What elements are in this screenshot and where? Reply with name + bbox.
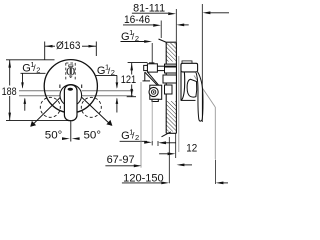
lever knuckle (187, 79, 197, 97)
12 dimension (157, 141, 159, 146)
top port centerline extension (151, 43, 153, 64)
bottom port centerline extension (151, 102, 153, 142)
rosette bottom line (181, 99, 196, 101)
indicator dot (68, 88, 73, 91)
left G1/2 leader arrows (22, 73, 24, 87)
wall face extension up (175, 9, 177, 42)
dashed swing circles (40, 97, 101, 117)
centerline below handle (70, 121, 72, 142)
svg-text:67-97: 67-97 (107, 154, 135, 166)
valve body (143, 63, 177, 102)
escutcheon rosette side profile (181, 65, 185, 101)
wall (166, 43, 176, 62)
svg-text:50°: 50° (84, 129, 102, 141)
svg-text:2: 2 (135, 133, 139, 142)
dashed hidden box (66, 63, 75, 81)
inward arrows at centerline (62, 137, 70, 140)
right swing-line arrowhead (106, 120, 112, 126)
svg-text:188: 188 (2, 86, 17, 98)
stem above boss (182, 61, 192, 63)
lever blade (196, 72, 203, 121)
svg-text:81-111: 81-111 (133, 2, 165, 14)
handle collar dome (60, 85, 82, 107)
dia163 dimension (45, 42, 97, 60)
svg-text:12: 12 (186, 143, 197, 155)
escutcheon circle (44, 60, 97, 113)
svg-text:Ø163: Ø163 (56, 40, 80, 52)
svg-text:50°: 50° (45, 129, 62, 141)
lever handle capsule (64, 85, 77, 121)
thin lever alt line (194, 76, 215, 108)
GROHE emblem (67, 65, 75, 78)
188 dimension (6, 60, 71, 121)
svg-text:121: 121 (121, 74, 137, 86)
supply pipe lines (hot/cold) (19, 91, 133, 96)
thin escutcheon alt position line (178, 56, 180, 152)
lever boss extension line (201, 4, 203, 122)
handle boss (181, 63, 198, 72)
50-degree swing lines (31, 87, 112, 126)
121 dimension (128, 62, 148, 64)
left swing-line arrowhead (30, 121, 36, 127)
right G1/2 leader arrows (116, 75, 118, 87)
svg-text:16-46: 16-46 (124, 14, 150, 26)
